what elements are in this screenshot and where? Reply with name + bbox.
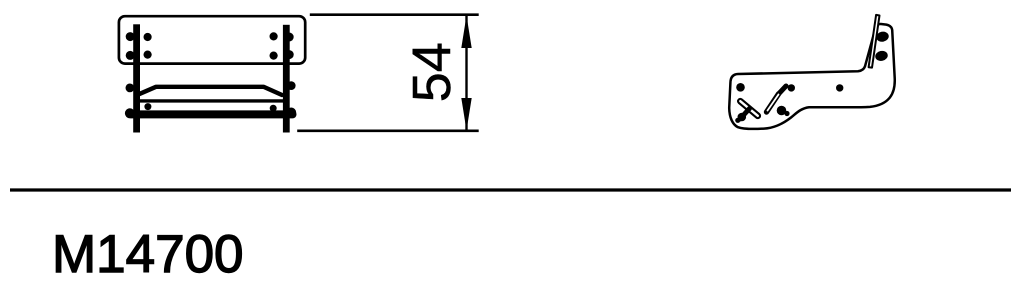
bolt: right post mid upper <box>287 81 296 90</box>
screw left head (tee) <box>740 109 750 120</box>
svg-text:M14700: M14700 <box>52 225 244 284</box>
bolt: left post upper-left top <box>126 32 135 41</box>
svg-text:54: 54 <box>402 42 462 102</box>
dimension line vertical <box>465 16 467 131</box>
bolt: left post mid upper <box>125 84 134 93</box>
backrest board (rounded rectangle, front view) <box>119 16 305 63</box>
bolt: right post inner small <box>270 105 277 112</box>
bolt on bracket flat (left) <box>736 83 745 92</box>
bolt: right post upper-right bottom <box>285 50 294 59</box>
seat board (edge-on, tilted) <box>869 15 880 68</box>
right post <box>283 25 290 133</box>
bolt on tilted board (lower) <box>874 50 888 62</box>
seat bar (thick) <box>131 110 293 118</box>
bolt: right post upper-left bottom <box>270 52 278 60</box>
bolt: right post mid lower <box>286 108 296 118</box>
arrowhead top <box>461 16 471 49</box>
bolt: left post mid lower <box>125 108 135 118</box>
left post <box>133 24 140 132</box>
extension line bottom <box>297 129 479 132</box>
bolt: left post inner small <box>144 103 151 110</box>
backrest support bar (bent tube) <box>138 87 283 95</box>
bolt: left post upper-left bottom <box>126 51 135 60</box>
bracket outline (side view) <box>729 24 895 129</box>
bolt: right post upper-left top <box>270 32 278 40</box>
bolt on tilted board (upper) <box>875 30 889 42</box>
separator line <box>10 188 1011 191</box>
bolt: right post upper-right top <box>285 33 294 42</box>
bolt on bracket flat (right) <box>836 84 843 91</box>
bolt: left post upper-right top <box>144 33 152 41</box>
bolt: left post upper-right bottom <box>144 51 152 59</box>
arrowhead bottom <box>461 98 471 131</box>
seat middle rail <box>136 99 288 102</box>
bolt on bracket flat (middle) <box>788 84 795 91</box>
screw left (outlined slot) <box>740 101 758 116</box>
screw right (shaft) <box>779 86 787 94</box>
extension line top <box>310 13 479 16</box>
screw right head <box>777 106 787 116</box>
